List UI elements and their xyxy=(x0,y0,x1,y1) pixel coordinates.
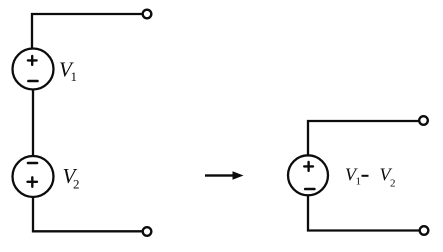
plus sign of combined source xyxy=(304,162,313,171)
svg-text:1: 1 xyxy=(356,176,362,188)
terminal: left circuit top xyxy=(143,10,152,19)
voltage source V2 xyxy=(13,156,54,197)
terminal: left circuit bottom xyxy=(143,227,152,236)
wire: right circuit top horizontal xyxy=(308,121,418,156)
plus sign of V1 xyxy=(28,56,37,65)
svg-text:2: 2 xyxy=(73,177,80,192)
minus sign of V2 xyxy=(28,162,37,165)
wire: left circuit top horizontal xyxy=(32,14,142,48)
wire: between V1 and V2 xyxy=(32,90,34,157)
minus sign of combined source xyxy=(305,188,314,191)
terminal: right circuit top xyxy=(419,116,428,125)
voltage source V1 xyxy=(13,49,54,90)
wire: right circuit bottom horizontal xyxy=(308,196,419,231)
svg-text:2: 2 xyxy=(390,177,396,189)
svg-text:1: 1 xyxy=(71,69,78,84)
label V1 - V2 xyxy=(345,164,396,189)
minus sign of V1 xyxy=(28,80,37,83)
voltage source V1-V2 (combined) xyxy=(288,155,328,195)
wire: left circuit bottom horizontal xyxy=(33,197,142,231)
terminal: right circuit bottom xyxy=(420,226,429,235)
plus sign of V2 xyxy=(28,177,38,187)
arrow: transformation xyxy=(205,171,244,179)
